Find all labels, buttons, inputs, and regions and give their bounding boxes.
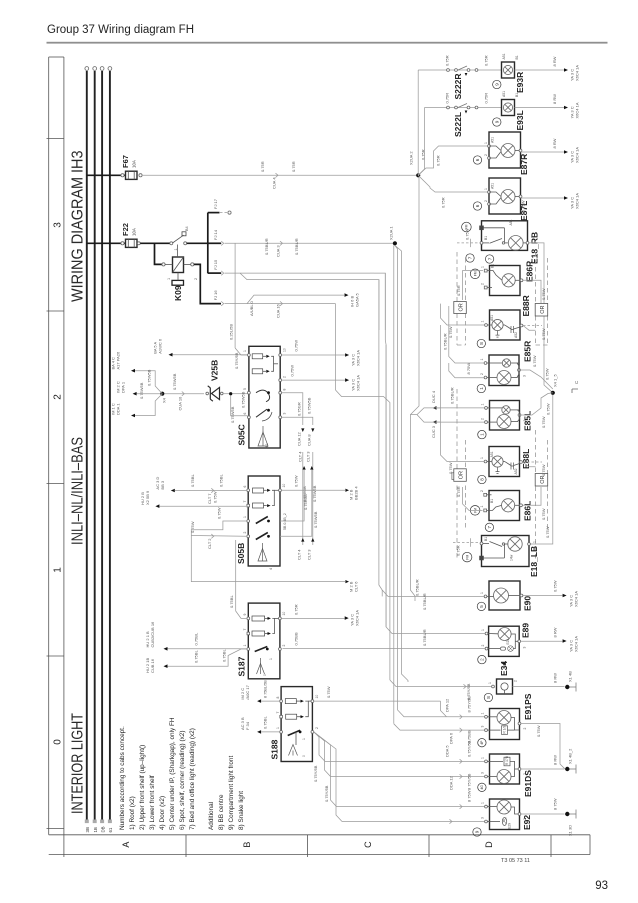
svg-text:3: 3 xyxy=(481,817,485,819)
lamp unit E91DS xyxy=(481,754,534,797)
svg-text:0.75BL/R: 0.75BL/R xyxy=(442,333,447,350)
wire E87R output arrow xyxy=(521,138,580,163)
svg-text:9: 9 xyxy=(243,614,247,616)
ground ref circle E86R 7 xyxy=(485,255,493,263)
wire bundle from X2UA1 xyxy=(336,245,447,716)
svg-text:E18_LB: E18_LB xyxy=(529,546,539,577)
svg-text:E91DS: E91DS xyxy=(523,770,533,797)
svg-text:0.75W: 0.75W xyxy=(546,403,551,415)
svg-text:7: 7 xyxy=(487,257,492,260)
lamp unit E86R xyxy=(481,261,535,296)
svg-text:2: 2 xyxy=(481,283,485,285)
svg-text:6: 6 xyxy=(243,413,247,415)
svg-text:B: B xyxy=(242,842,252,848)
wire E18_LB output xyxy=(528,395,553,545)
svg-text:FJ 17: FJ 17 xyxy=(213,198,218,209)
svg-text:B1: B1 xyxy=(490,499,494,503)
svg-text:1: 1 xyxy=(480,359,484,361)
svg-text:Additional: Additional xyxy=(208,802,215,830)
svg-text:0.75Y/5B: 0.75Y/5B xyxy=(467,740,472,757)
wire S05B right stubs xyxy=(280,451,318,537)
svg-text:FJ 15: FJ 15 xyxy=(213,259,218,270)
svg-text:1: 1 xyxy=(302,738,306,740)
wire FJ15 branch xyxy=(225,273,386,330)
terminal X1 4B xyxy=(565,671,576,692)
wire E91DS output to X1 4B_2 xyxy=(521,755,565,769)
svg-text:V25B: V25B xyxy=(210,360,220,381)
svg-text:DDA 12: DDA 12 xyxy=(449,775,454,790)
wire E86R output xyxy=(523,280,546,303)
svg-text:A51: A51 xyxy=(491,137,495,143)
ground ref circle E86L FM xyxy=(470,506,480,516)
switch unit S188 xyxy=(269,687,319,762)
svg-text:A1WC 6: A1WC 6 xyxy=(158,338,163,354)
svg-text:0.75W: 0.75W xyxy=(536,725,541,737)
wire S05B pin7 feed xyxy=(140,490,246,508)
svg-text:0.75W: 0.75W xyxy=(541,464,546,476)
svg-text:3: 3 xyxy=(283,413,287,415)
svg-text:S05C: S05C xyxy=(237,424,247,445)
svg-text:8 RW: 8 RW xyxy=(553,627,558,637)
OR box left xyxy=(454,302,467,314)
svg-text:3: 3 xyxy=(523,375,527,377)
svg-text:8: 8 xyxy=(480,478,485,481)
svg-text:CLT 3: CLT 3 xyxy=(306,549,311,560)
svg-text:E90: E90 xyxy=(523,596,533,611)
svg-text:8) Snake light: 8) Snake light xyxy=(238,791,245,830)
svg-text:X6C4 1A: X6C4 1A xyxy=(575,65,580,81)
switch unit S05C xyxy=(237,346,287,448)
relay K09 base xyxy=(172,245,184,302)
svg-text:0.75W: 0.75W xyxy=(294,475,299,487)
wire E86L feed xyxy=(456,486,483,510)
svg-text:8 RW: 8 RW xyxy=(552,94,557,104)
svg-text:A51: A51 xyxy=(491,183,495,189)
svg-text:1: 1 xyxy=(481,757,485,759)
svg-text:0.75BL: 0.75BL xyxy=(194,650,199,663)
svg-text:93: 93 xyxy=(595,880,608,892)
lamp unit E87R xyxy=(484,132,529,175)
svg-text:0.75W: 0.75W xyxy=(465,228,470,240)
svg-text:8 RW: 8 RW xyxy=(553,755,558,765)
svg-text:X4: X4 xyxy=(162,397,167,403)
svg-text:E88R: E88R xyxy=(521,295,531,316)
svg-text:6: 6 xyxy=(243,486,247,488)
svg-text:S187: S187 xyxy=(237,656,247,676)
fuse F22 wire xyxy=(87,242,125,244)
wire X2UA2 to E87R xyxy=(418,146,487,175)
wire E18_RB output xyxy=(529,243,553,393)
wire E86L output xyxy=(523,487,547,520)
wire S187 pin1 feeds xyxy=(145,621,247,673)
OR box left lower xyxy=(454,469,467,482)
wire S05C pin5 feed xyxy=(234,391,248,408)
svg-text:DPA 6: DPA 6 xyxy=(449,732,454,744)
svg-text:E89: E89 xyxy=(521,623,531,638)
svg-text:9) Compartment light front: 9) Compartment light front xyxy=(228,756,235,830)
svg-text:A17 PA26: A17 PA26 xyxy=(116,351,121,369)
svg-text:3: 3 xyxy=(481,726,485,728)
switch S222R xyxy=(418,55,501,99)
svg-text:1: 1 xyxy=(243,516,247,518)
svg-text:FM: FM xyxy=(465,554,469,559)
svg-text:1: 1 xyxy=(243,645,247,647)
svg-text:X6C4 1A: X6C4 1A xyxy=(575,102,580,118)
ground ref circle E89 xyxy=(478,655,486,663)
svg-text:2: 2 xyxy=(480,490,484,492)
svg-text:CUC 3: CUC 3 xyxy=(431,425,436,438)
node X2UA2 xyxy=(409,151,421,178)
svg-text:0.75R: 0.75R xyxy=(441,197,446,208)
wire S188 pin1 feed xyxy=(240,716,280,734)
lamp unit E88R xyxy=(481,295,532,340)
arrow below E89 xyxy=(502,663,505,669)
wire X2UA2 to E87L xyxy=(418,175,487,208)
svg-text:0.75W: 0.75W xyxy=(553,580,558,592)
wire E91DS feeds xyxy=(325,740,485,790)
svg-text:0.75BL: 0.75BL xyxy=(229,595,234,608)
wire FJ distribution trunk xyxy=(208,198,231,273)
svg-text:2: 2 xyxy=(243,532,247,534)
ground ref circle E85L xyxy=(478,430,486,438)
svg-text:A: A xyxy=(121,842,131,848)
svg-text:WIRING DIAGRAM IH3: WIRING DIAGRAM IH3 xyxy=(69,150,86,302)
svg-text:9: 9 xyxy=(494,120,499,123)
svg-text:BB2B 4: BB2B 4 xyxy=(354,486,359,500)
svg-text:7: 7 xyxy=(468,256,473,259)
svg-text:0.75R: 0.75R xyxy=(456,486,461,497)
wire E86R feed xyxy=(456,271,483,301)
svg-text:R 17B: R 17B xyxy=(505,756,509,765)
svg-text:0.75BL/R: 0.75BL/R xyxy=(422,593,427,610)
svg-text:0.75W5B: 0.75W5B xyxy=(139,382,144,399)
svg-text:10: 10 xyxy=(282,612,286,616)
svg-text:0.75R: 0.75R xyxy=(291,161,296,172)
svg-text:1: 1 xyxy=(481,404,485,406)
wire E88R output xyxy=(523,326,546,341)
relay K09 contact switch xyxy=(173,226,208,250)
svg-text:1: 1 xyxy=(167,278,171,280)
wire S05C out pin8 xyxy=(282,393,305,446)
node FJ 15 xyxy=(208,259,224,275)
svg-text:DPA 12: DPA 12 xyxy=(445,698,450,712)
svg-text:14w: 14w xyxy=(510,554,514,561)
svg-text:10: 10 xyxy=(282,484,286,488)
svg-text:0.75W: 0.75W xyxy=(541,508,546,520)
svg-text:8: 8 xyxy=(479,342,484,345)
svg-text:8 75W: 8 75W xyxy=(467,790,472,802)
svg-text:0.75BL/R: 0.75BL/R xyxy=(450,387,455,404)
terminal X1 4B_2 xyxy=(565,748,576,774)
svg-text:B4: B4 xyxy=(185,226,189,231)
node X2UA1 xyxy=(389,226,398,246)
svg-text:2: 2 xyxy=(480,658,485,661)
svg-text:8 75BL/5B: 8 75BL/5B xyxy=(264,680,268,698)
svg-text:C: C xyxy=(363,841,373,848)
svg-text:A51: A51 xyxy=(509,219,513,225)
ground ref circle E85R xyxy=(477,384,485,392)
svg-text:CUB 16: CUB 16 xyxy=(150,658,155,673)
svg-text:X4 1_5: X4 1_5 xyxy=(553,374,558,387)
lamp unit E88L xyxy=(480,447,531,477)
terminal X1 3D xyxy=(565,810,576,837)
svg-text:OR: OR xyxy=(459,303,465,311)
svg-text:S188: S188 xyxy=(269,739,279,759)
lamp unit E85L xyxy=(481,401,533,432)
lamp unit E85R xyxy=(480,341,533,386)
svg-text:8 75Y/5B: 8 75Y/5B xyxy=(467,773,472,790)
svg-text:6: 6 xyxy=(475,204,480,207)
ground ref circle E34 xyxy=(484,693,492,701)
svg-text:0.75W5B: 0.75W5B xyxy=(241,391,246,408)
svg-text:0.25L/5B: 0.25L/5B xyxy=(229,324,234,340)
svg-text:INLI–NL/INLI–BAS: INLI–NL/INLI–BAS xyxy=(69,437,86,545)
wire E90 feed xyxy=(382,590,485,610)
svg-text:9: 9 xyxy=(494,83,499,86)
wire E91PS feeds xyxy=(394,245,485,744)
svg-text:4 1: 4 1 xyxy=(265,443,269,448)
svg-text:2: 2 xyxy=(315,727,319,729)
ground ref circle E86L 7 xyxy=(485,523,493,531)
svg-text:E87R: E87R xyxy=(519,154,529,175)
svg-text:0.75W: 0.75W xyxy=(190,521,195,533)
svg-text:E86L: E86L xyxy=(523,501,533,521)
svg-text:CLT 4: CLT 4 xyxy=(296,549,301,560)
svg-text:X6C4 1A: X6C4 1A xyxy=(574,636,579,652)
wire E88L feed xyxy=(441,325,485,474)
svg-text:0.75BL/R: 0.75BL/R xyxy=(414,579,419,596)
svg-text:D: D xyxy=(484,841,494,848)
wire E92 feeds xyxy=(337,790,485,823)
svg-text:DDA 1: DDA 1 xyxy=(116,403,121,415)
svg-text:1: 1 xyxy=(488,682,492,684)
ground ref circle E86R FM xyxy=(470,269,480,279)
svg-text:8: 8 xyxy=(276,697,280,699)
svg-text:0.75Y/5B: 0.75Y/5B xyxy=(313,765,318,782)
wire S05C pin6 loop xyxy=(229,392,247,423)
wire E89 feed 1 xyxy=(386,345,485,646)
svg-text:1: 1 xyxy=(484,142,488,144)
svg-text:10: 10 xyxy=(315,695,319,699)
svg-text:0.75BL: 0.75BL xyxy=(194,632,199,645)
svg-text:4) Door (x2): 4) Door (x2) xyxy=(159,796,166,830)
ground ref circle E91DS xyxy=(478,783,486,791)
fuse F67 wire xyxy=(87,174,125,176)
svg-text:10A: 10A xyxy=(132,160,137,168)
svg-text:7: 7 xyxy=(487,526,492,529)
bus wire 3B xyxy=(85,67,90,833)
svg-text:3: 3 xyxy=(53,222,64,228)
wire to V25B xyxy=(164,373,204,410)
svg-text:1: 1 xyxy=(533,541,537,543)
ground ref circle E91PS xyxy=(478,739,486,747)
svg-text:A52: A52 xyxy=(514,468,518,474)
svg-text:CLT 6: CLT 6 xyxy=(354,581,359,592)
node X4 1_5 xyxy=(546,374,580,415)
svg-text:F 34: F 34 xyxy=(245,721,250,730)
svg-text:GA5A 5: GA5A 5 xyxy=(355,292,360,307)
svg-text:0.75R: 0.75R xyxy=(445,93,450,104)
svg-text:DPA 1: DPA 1 xyxy=(121,381,126,393)
svg-text:2: 2 xyxy=(53,394,64,400)
svg-text:CUA 12: CUA 12 xyxy=(296,431,301,446)
svg-text:X6C4 1A: X6C4 1A xyxy=(575,147,580,163)
switch unit S05B xyxy=(236,476,286,570)
ground ref circle E88L xyxy=(478,475,486,483)
svg-text:1) Roof (x2): 1) Roof (x2) xyxy=(129,796,136,830)
svg-text:1: 1 xyxy=(481,713,485,715)
svg-text:CLT 3: CLT 3 xyxy=(305,451,310,462)
svg-text:0: 0 xyxy=(302,755,306,757)
ground ref circle E88R xyxy=(477,339,485,347)
svg-text:CUA 8: CUA 8 xyxy=(306,434,311,446)
svg-text:0.75W5B: 0.75W5B xyxy=(230,406,235,423)
svg-text:X1 4B_2: X1 4B_2 xyxy=(568,748,573,764)
wire CLT stubs xyxy=(296,452,317,560)
svg-text:10A: 10A xyxy=(132,228,137,236)
diode V25B xyxy=(206,360,234,401)
wire E85R output xyxy=(520,355,552,389)
svg-text:0.75BL/R: 0.75BL/R xyxy=(264,238,269,255)
svg-text:Numbers according to cabs conc: Numbers according to cabs concept. xyxy=(119,726,126,830)
svg-text:1: 1 xyxy=(243,350,247,352)
wire E90 output arrow xyxy=(523,580,579,607)
svg-text:8) BB centre: 8) BB centre xyxy=(218,794,225,830)
svg-text:2: 2 xyxy=(481,418,485,420)
wire E85R feed 2 xyxy=(449,363,484,378)
svg-text:0.75W5B: 0.75W5B xyxy=(312,485,317,502)
svg-text:0.75BL/R: 0.75BL/R xyxy=(294,238,299,255)
wire E91PS output xyxy=(521,724,565,769)
svg-text:2: 2 xyxy=(484,200,488,202)
svg-text:DB: DB xyxy=(100,826,105,832)
svg-text:1: 1 xyxy=(484,188,488,190)
wire S188 pin10 out xyxy=(314,686,447,717)
svg-text:INTERIOR LIGHT: INTERIOR LIGHT xyxy=(69,713,86,814)
wire F67 to node X2UA2 xyxy=(139,161,418,189)
svg-text:4 1: 4 1 xyxy=(269,565,273,570)
svg-text:FJ 14: FJ 14 xyxy=(213,229,218,240)
wire S05B pin1 loop xyxy=(191,507,247,535)
svg-text:0.75BL/R: 0.75BL/R xyxy=(422,629,427,646)
svg-text:E86R: E86R xyxy=(525,261,535,282)
svg-text:0.75W: 0.75W xyxy=(521,200,526,212)
svg-text:S222L: S222L xyxy=(453,112,463,137)
wire S05C out pin3 xyxy=(282,397,315,446)
svg-text:0.75W: 0.75W xyxy=(532,355,537,367)
svg-text:3: 3 xyxy=(523,647,527,649)
lamp unit E92 xyxy=(481,799,533,830)
svg-text:0.75BL: 0.75BL xyxy=(219,474,224,487)
svg-text:0.75W: 0.75W xyxy=(448,462,453,474)
svg-text:5B 0.4B_2: 5B 0.4B_2 xyxy=(283,513,287,530)
lamp unit E93L xyxy=(502,91,526,131)
ground ref circle E18_RB FM xyxy=(462,222,472,232)
svg-text:X1 4B: X1 4B xyxy=(568,671,573,682)
svg-text:R 1/9: R 1/9 xyxy=(503,726,507,734)
ground ref circle E18_RB 7 xyxy=(466,254,474,262)
wire S05B pin6 feed xyxy=(155,474,247,504)
wire S05C out pin2 xyxy=(282,365,361,391)
svg-text:E85L: E85L xyxy=(523,411,533,431)
svg-text:B1: B1 xyxy=(515,55,519,59)
svg-text:0.75R: 0.75R xyxy=(484,93,489,104)
svg-text:6) Spot, shelf, corner (readin: 6) Spot, shelf, corner (reading) (x2) xyxy=(179,731,186,830)
svg-text:1: 1 xyxy=(269,658,273,660)
svg-text:/A0C 17: /A0C 17 xyxy=(245,684,250,699)
svg-text:3) Lower front shelf: 3) Lower front shelf xyxy=(149,775,156,830)
svg-text:X2 5B 9: X2 5B 9 xyxy=(145,490,150,505)
wire E89 feed 2 xyxy=(283,648,486,650)
svg-text:0.75R: 0.75R xyxy=(484,55,489,66)
ground ref circle E92 xyxy=(473,828,481,836)
svg-text:8 75W: 8 75W xyxy=(466,363,471,375)
svg-text:2: 2 xyxy=(481,645,485,647)
svg-text:A51: A51 xyxy=(490,315,494,321)
svg-text:7: 7 xyxy=(243,629,247,631)
wire IM node cluster xyxy=(111,351,167,417)
svg-text:0.75W: 0.75W xyxy=(545,526,550,538)
svg-text:10: 10 xyxy=(283,348,287,352)
svg-text:0.75W: 0.75W xyxy=(545,368,550,380)
svg-text:X6C4 1A: X6C4 1A xyxy=(574,591,579,607)
svg-text:X6C4 1A: X6C4 1A xyxy=(355,610,360,626)
svg-text:7: 7 xyxy=(243,501,247,503)
svg-text:B1: B1 xyxy=(491,264,495,268)
svg-text:1: 1 xyxy=(481,629,485,631)
svg-text:8 RW: 8 RW xyxy=(552,56,557,66)
svg-text:OR: OR xyxy=(540,306,546,314)
legend numbers according to cabs concept xyxy=(119,717,245,830)
svg-text:E85R: E85R xyxy=(523,341,533,362)
svg-text:0.75BL: 0.75BL xyxy=(263,716,268,729)
fuse F67 xyxy=(121,155,137,179)
svg-text:1B: 1B xyxy=(93,827,98,832)
fuse F22 xyxy=(121,223,137,247)
wire E18 vertical xyxy=(410,177,419,601)
OR box right xyxy=(535,304,548,317)
ground ref circle E87L xyxy=(473,202,481,210)
svg-text:E93R: E93R xyxy=(515,72,525,93)
frame bottom band xyxy=(49,834,590,836)
dashed group frame right xyxy=(457,252,548,345)
svg-text:0.75R: 0.75R xyxy=(436,155,441,166)
wire E85R feed 1 xyxy=(442,306,484,363)
svg-text:0.75W: 0.75W xyxy=(216,507,221,519)
wire E88R feed xyxy=(441,304,485,338)
svg-text:0.75W5B: 0.75W5B xyxy=(147,369,152,386)
svg-text:61: 61 xyxy=(108,827,113,832)
wire E88L output xyxy=(523,462,547,476)
wire S187 pin10 out xyxy=(281,604,359,626)
wire S05C top feed xyxy=(229,243,248,355)
svg-text:8 RW: 8 RW xyxy=(552,138,557,148)
svg-text:K09: K09 xyxy=(173,285,183,301)
wire F22 to relay contact xyxy=(137,242,173,245)
svg-text:E92: E92 xyxy=(522,815,532,830)
header rule xyxy=(47,42,608,44)
ground ref circle E93L xyxy=(493,118,501,126)
dashed group frame left side xyxy=(457,389,548,560)
connector E34 xyxy=(488,661,518,694)
svg-text:X1 3D: X1 3D xyxy=(568,825,573,836)
switch S222L xyxy=(425,93,502,137)
ground ref circle E93R xyxy=(493,80,501,88)
svg-text:Group 37 Wiring diagram FH: Group 37 Wiring diagram FH xyxy=(47,24,194,36)
svg-text:5: 5 xyxy=(243,388,247,390)
bus wire 61 xyxy=(108,67,113,833)
svg-text:2: 2 xyxy=(523,728,527,730)
